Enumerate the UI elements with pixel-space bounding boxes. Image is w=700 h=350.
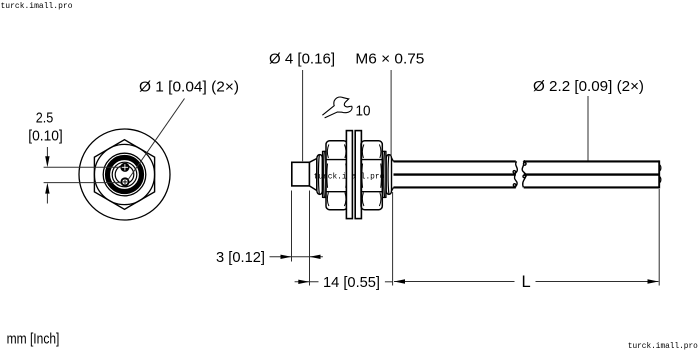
side view: flange plate right [355, 131, 361, 219]
svg-text:2.5: 2.5 [36, 110, 54, 127]
svg-text:L: L [522, 273, 531, 291]
svg-text:3 [0.12]: 3 [0.12] [216, 249, 265, 266]
side view: right thread bead [386, 155, 391, 195]
svg-text:turck.imall.pro: turck.imall.pro [1, 1, 73, 11]
svg-text:Ø 1 [0.04] (2×): Ø 1 [0.04] (2×) [139, 79, 239, 96]
wrench icon [322, 97, 352, 118]
side view: left collar [323, 151, 326, 197]
front view: chamfer circle [94, 144, 154, 204]
side view: taper to tube [391, 158, 393, 192]
svg-text:Ø 4 [0.16]: Ø 4 [0.16] [269, 51, 335, 68]
front view: hex nut outline [94, 140, 154, 210]
side view: cone taper [309, 159, 316, 191]
side view: tube segment 1 [394, 161, 516, 187]
side view: right collar [383, 151, 386, 197]
svg-text:M6 × 0.75: M6 × 0.75 [355, 51, 424, 68]
front view: flange outer circle [79, 129, 170, 220]
dimension 2.5: top arrow [45, 147, 49, 167]
side view: sensing tip [292, 162, 310, 186]
side view: left hex nut [326, 141, 347, 210]
svg-text:14 [0.55]: 14 [0.55] [323, 274, 380, 291]
svg-text:10: 10 [356, 103, 371, 120]
front view: thick black ring [108, 158, 142, 192]
dimension 2.5: extension lines [44, 166, 120, 168]
side view: break mark left [513, 161, 517, 187]
side view: right hex nut [361, 141, 382, 210]
front view: contact carrier circle [115, 165, 134, 184]
front view: sleeve outer circle [103, 153, 146, 196]
label tip dia: leader line [302, 70, 304, 161]
svg-text:mm [Inch]: mm [Inch] [7, 330, 60, 347]
front view: inner thin ring [112, 162, 137, 187]
svg-text:[0.10]: [0.10] [28, 127, 63, 144]
label hole dia: leader line [128, 99, 185, 181]
dimension 14: line and arrow [295, 280, 393, 284]
dimension 2.5: bottom arrow [45, 183, 49, 204]
label thread: leader line [390, 70, 392, 157]
dimension 3: line and arrows [270, 255, 323, 259]
side view: tube segment 2 [524, 160, 661, 188]
side view: flange plate left [346, 131, 352, 219]
extension line thread end [392, 192, 394, 286]
front view: bottom contact hole [121, 178, 128, 185]
svg-text:Ø 2.2 [0.09] (2×): Ø 2.2 [0.09] (2×) [533, 78, 644, 95]
extension line tip left [291, 191, 293, 262]
side view: break mark right [522, 160, 526, 187]
extension line tip right [309, 191, 311, 286]
dimension L: line and arrows [394, 279, 659, 283]
side view: left thread bead [317, 155, 323, 195]
front view: top contact hole [120, 163, 129, 172]
extension line tube end [658, 189, 660, 286]
label tube dia: leader line [587, 96, 589, 161]
svg-text:turck.imall.pro: turck.imall.pro [628, 341, 698, 350]
